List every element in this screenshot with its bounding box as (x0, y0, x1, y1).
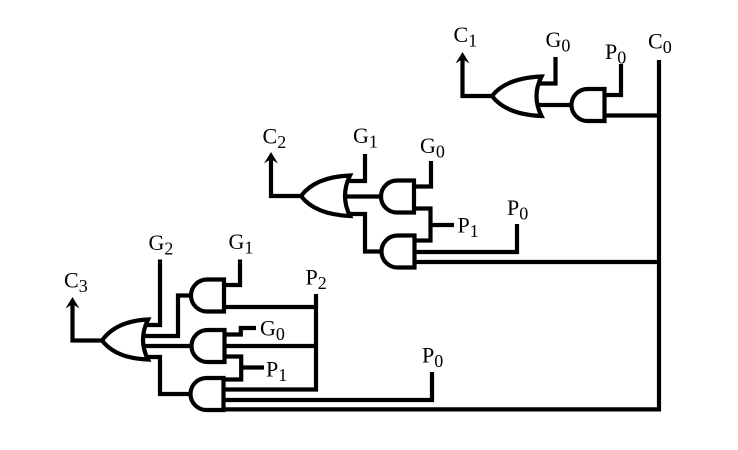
svg-text:P1: P1 (458, 213, 479, 242)
svg-text:C0: C0 (648, 29, 672, 58)
svg-text:G0: G0 (546, 27, 571, 56)
svg-text:P2: P2 (306, 265, 327, 294)
svg-text:C1: C1 (454, 22, 478, 51)
svg-text:G0: G0 (260, 316, 285, 345)
svg-text:G1: G1 (353, 123, 378, 152)
svg-text:P1: P1 (266, 357, 287, 386)
svg-text:P0: P0 (605, 39, 626, 68)
svg-text:C3: C3 (64, 268, 88, 297)
svg-text:G0: G0 (420, 133, 445, 162)
svg-text:G2: G2 (149, 230, 174, 259)
svg-text:P0: P0 (507, 195, 528, 224)
svg-text:C2: C2 (263, 124, 287, 153)
svg-text:P0: P0 (422, 343, 443, 372)
svg-text:G1: G1 (229, 229, 254, 258)
